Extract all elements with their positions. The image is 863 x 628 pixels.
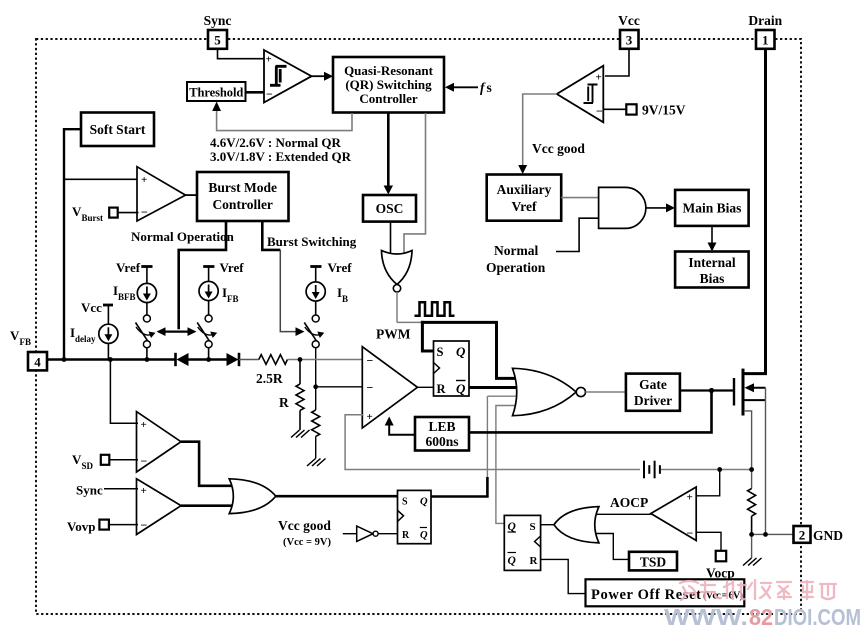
svg-text:R: R	[402, 530, 410, 541]
op-amp U8 AOCP comparator (points left)	[651, 487, 696, 541]
wire: sense node to GND pin (gray)	[752, 533, 794, 535]
current source IFB branch: Vref supply bar	[203, 265, 214, 268]
svg-text:Sync: Sync	[204, 13, 232, 28]
svg-text:Normal: Normal	[494, 243, 538, 258]
flip-flop FF3 (restart latch)	[398, 490, 432, 543]
op-amp U3 burst mode comparator	[137, 167, 186, 221]
svg-text:GND: GND	[813, 528, 843, 543]
svg-text:S: S	[437, 345, 444, 359]
svg-text:Q: Q	[508, 521, 516, 533]
svg-text:Controller: Controller	[359, 91, 417, 106]
Auxiliary Vref block	[487, 175, 562, 221]
Quasi-Resonant (QR) Switching Controller block	[333, 57, 444, 113]
wire: comparator output arrow into QR controller	[312, 75, 328, 77]
svg-text:3: 3	[626, 33, 633, 48]
wire: Sync comparator output to OR3 (thick)	[181, 504, 234, 507]
wire: thick clock rail to NOR2 top input	[421, 322, 515, 378]
svg-text:Vovp: Vovp	[67, 519, 95, 534]
svg-text:+: +	[596, 72, 602, 84]
current source IB	[306, 282, 348, 304]
svg-text:−: −	[141, 454, 148, 468]
svg-text:2.5R: 2.5R	[256, 371, 283, 386]
svg-text:s: s	[487, 80, 492, 95]
resistor 2.5R	[259, 355, 288, 365]
wire: Aux Vref to AND gate (gray)	[561, 197, 600, 199]
switch SW1	[136, 303, 156, 360]
wire: AND to Main Bias (arrow)	[646, 207, 669, 209]
wire: Soft Start to VFB rail (thick vertical)	[64, 129, 81, 359]
svg-text:−: −	[367, 380, 374, 394]
svg-text:+: +	[687, 492, 693, 504]
svg-text:Bias: Bias	[700, 271, 725, 286]
wire: AOCP output to OR4 input	[594, 513, 651, 515]
svg-text:AOCP: AOCP	[610, 495, 648, 510]
svg-text:BFB: BFB	[118, 292, 136, 302]
svg-text:R: R	[437, 382, 447, 396]
svg-text:Normal Operation: Normal Operation	[131, 229, 235, 244]
svg-text:−: −	[141, 518, 148, 532]
OR gate U13 (points left)	[554, 507, 599, 543]
Main Bias block	[675, 190, 749, 226]
svg-text:V: V	[72, 204, 82, 219]
wire 2.5R to PWM comparator - input (gray)	[287, 359, 364, 361]
wire: LEB to PWM comparator bottom (arrow up)	[389, 423, 415, 435]
wire: Threshold box to sync comparator - input	[246, 91, 267, 94]
OR gate U11	[229, 479, 276, 514]
OSC block	[363, 195, 416, 222]
wire: FF2 Q up to NOR2 input 4	[496, 406, 516, 524]
wire: Gate Driver to MOSFET gate (thick)	[680, 389, 733, 391]
svg-text:Sync: Sync	[76, 483, 103, 498]
svg-text:R: R	[279, 395, 289, 410]
wire: QR controller feedback to Threshold (gray)	[217, 108, 352, 131]
svg-text:4: 4	[34, 355, 41, 370]
svg-text:2: 2	[799, 527, 806, 542]
wire: OR3 output to FF3 S (thick)	[276, 495, 398, 498]
wire: PWM comparator output to FF1 R	[418, 386, 434, 388]
wire: fs input arrow into QR controller	[451, 86, 478, 88]
Power Off Reset block	[586, 579, 745, 606]
wire: Vcc good line to Auxiliary Vref (gray, arrow down)	[523, 94, 557, 168]
pin 5 Sync	[208, 30, 227, 49]
svg-text:+: +	[141, 174, 147, 186]
node divider junction to comparator input 2	[316, 386, 364, 388]
svg-text:Quasi-Resonant: Quasi-Resonant	[344, 63, 434, 78]
double-headed arrow switch actuator	[161, 331, 192, 333]
ground (R2)	[307, 459, 326, 467]
svg-text:9V/15V: 9V/15V	[642, 103, 686, 118]
pin 1 Drain	[756, 30, 775, 49]
wire: PWM comparator + feedback (gray, down to CS line)	[345, 415, 640, 470]
wire: Main Bias to Internal Bias (arrow)	[711, 226, 713, 246]
ground (Rsense)	[743, 558, 762, 566]
resistor R2 (vertical)	[312, 387, 320, 459]
svg-text:(QR) Switching: (QR) Switching	[345, 77, 432, 92]
wire: to burst comparator + input	[64, 178, 139, 180]
wire: BMC burst-switching control line	[262, 221, 280, 250]
svg-text:Driver: Driver	[634, 393, 672, 408]
inverter U12	[343, 526, 398, 541]
wire: BMC normal-operation control line (thick) to switch actuator	[179, 221, 226, 329]
wire: Rsense bottom to ground	[751, 534, 753, 558]
svg-text:S: S	[402, 497, 408, 508]
NOR gate U2 (points down)	[382, 251, 413, 292]
svg-text:5: 5	[214, 33, 221, 48]
svg-text:OSC: OSC	[376, 201, 404, 216]
wire: VFB rail down to VSD + input	[110, 360, 138, 424]
svg-text:Vref: Vref	[328, 260, 353, 275]
svg-text:Q: Q	[456, 344, 466, 359]
svg-text:Burst Mode: Burst Mode	[208, 180, 277, 195]
diode D1 (points left)	[174, 353, 177, 366]
Gate Driver block	[626, 374, 680, 411]
svg-text:B: B	[342, 294, 348, 304]
watermark URL	[664, 604, 861, 628]
svg-text:S: S	[530, 521, 536, 533]
wire: CS line from battery to sense node (gray)	[661, 469, 752, 471]
wire: FF2 R input from Power Off Reset	[541, 559, 586, 593]
flip-flop FF2 (protection latch, mirrored)	[504, 515, 540, 570]
svg-text:Threshold: Threshold	[189, 86, 243, 100]
Threshold box	[187, 82, 246, 101]
svg-text:Vref: Vref	[116, 260, 141, 275]
TSD block	[629, 552, 677, 571]
svg-text:+: +	[141, 419, 147, 431]
svg-text:Auxiliary: Auxiliary	[497, 182, 552, 197]
wire: Normal Operation to AND gate	[556, 218, 600, 251]
current source Idelay	[70, 324, 118, 359]
clock pulse waveform	[415, 302, 455, 315]
Burst Mode Controller block	[197, 172, 289, 221]
svg-text:Soft Start: Soft Start	[90, 122, 146, 137]
wire: OR4 output to FF2 S	[541, 524, 554, 526]
wire: NOR1 output down to PWM clock rail (gray)	[396, 292, 398, 322]
svg-text:−: −	[687, 526, 694, 540]
op-amp U4 PWM comparator	[362, 347, 417, 428]
svg-text:Vref: Vref	[220, 260, 245, 275]
svg-text:Q: Q	[420, 530, 428, 541]
watermark Chinese characters	[680, 580, 836, 600]
svg-text:Gate: Gate	[639, 377, 667, 392]
op-amp U10 Sync comparator	[137, 479, 182, 535]
svg-text:Operation: Operation	[486, 260, 546, 275]
diode D2 (points right)	[227, 353, 239, 366]
AND gate U7	[599, 187, 646, 228]
wire: clock rail branch to FF1 S input	[422, 321, 433, 351]
ground (R)	[291, 430, 310, 438]
transistor Q1 SenseFET	[734, 369, 766, 535]
svg-text:600ns: 600ns	[425, 434, 458, 449]
svg-text:R: R	[530, 555, 539, 567]
pin 2 GND	[794, 526, 811, 543]
wire: QR controller down arrow to OSC (thick)	[387, 113, 390, 188]
svg-text:delay: delay	[75, 334, 96, 344]
svg-text:V: V	[10, 328, 20, 343]
svg-text:+: +	[141, 485, 147, 497]
svg-text:Burst Switching: Burst Switching	[267, 234, 357, 249]
svg-text:Main Bias: Main Bias	[683, 201, 742, 216]
battery / offset symbol on CS line	[644, 461, 660, 479]
wire: FF3 Q up to NOR2 input 3	[486, 396, 488, 478]
svg-text:4.6V/2.6V : Normal QR: 4.6V/2.6V : Normal QR	[210, 135, 341, 150]
Soft Start block	[81, 113, 154, 147]
svg-text:V: V	[72, 452, 82, 467]
svg-text:82: 82	[749, 604, 773, 628]
svg-text:LEB: LEB	[428, 419, 455, 434]
svg-text:1: 1	[762, 33, 769, 48]
resistor Rsense (vertical)	[748, 489, 756, 535]
LEB 600ns block	[415, 417, 469, 451]
svg-text:Controller: Controller	[212, 197, 273, 212]
VFB rail wire (thick)	[47, 358, 175, 360]
wire: QR controller to NOR1 right input (gray)	[404, 113, 426, 256]
wire: AOCP + input to CS node	[696, 470, 720, 496]
switch SW2	[197, 301, 217, 360]
wire: OSC to NOR1 left input	[390, 222, 392, 256]
op-amp U1 sync threshold comparator with hysteresis	[264, 50, 312, 103]
svg-text:WWW.: WWW.	[664, 604, 748, 628]
svg-text:−: −	[367, 354, 374, 368]
svg-text:TSD: TSD	[640, 555, 667, 570]
current source IB branch: Vref supply bar	[310, 265, 321, 268]
resistor R (vertical)	[279, 360, 304, 431]
svg-text:(Vcc = 9V): (Vcc = 9V)	[283, 537, 331, 548]
wire: FF1 Qbar to NOR2 input (thick)	[469, 386, 516, 389]
wire: TSD to OR4 input	[592, 534, 629, 560]
flip-flop FF1 (PWM latch)	[434, 341, 470, 396]
op-amp U6 Vcc UVLO comparator (points left)	[557, 66, 604, 123]
wire: Drain pin down to MOSFET (thick)	[744, 49, 766, 374]
svg-text:+: +	[367, 411, 373, 423]
svg-text:Vcc: Vcc	[618, 13, 640, 28]
wire: AOCP - input to Vocp	[696, 532, 721, 551]
node 9V/15V	[603, 108, 626, 110]
pin 3 Vcc	[620, 30, 639, 49]
svg-text:Drain: Drain	[748, 13, 782, 28]
svg-text:FB: FB	[20, 337, 32, 347]
junction dots	[62, 357, 768, 537]
svg-text:Vcc good: Vcc good	[278, 518, 331, 533]
svg-text:Q: Q	[456, 381, 466, 396]
svg-text:Q: Q	[508, 555, 516, 567]
wire: NOR2 to Gate Driver (gray)	[586, 391, 627, 393]
current source IFB	[199, 281, 239, 304]
current source IBFB	[113, 283, 156, 303]
op-amp U9 VSD comparator	[137, 412, 182, 472]
svg-text:Vref: Vref	[512, 199, 537, 214]
svg-text:−: −	[266, 87, 273, 101]
svg-text:Q: Q	[420, 497, 428, 508]
wire between diodes (thick)	[189, 358, 228, 360]
svg-text:3.0V/1.8V : Extended QR: 3.0V/1.8V : Extended QR	[210, 149, 352, 164]
wire: VSD comparator output to OR3 (thick)	[181, 442, 234, 486]
node Vocp	[716, 551, 727, 562]
wire to 2.5R	[239, 359, 259, 361]
svg-text:Internal: Internal	[688, 255, 735, 270]
Internal Bias block	[675, 252, 749, 288]
wire: Vcc pin down to Vcc comparator +	[605, 49, 629, 76]
svg-text:−: −	[596, 104, 603, 118]
svg-text:−: −	[141, 205, 148, 219]
svg-text:Burst: Burst	[82, 213, 104, 223]
wire: gate node down and left to LEB (thick)	[469, 391, 712, 433]
svg-text:DIOI.COM: DIOI.COM	[774, 604, 861, 628]
svg-text:Vcc good: Vcc good	[532, 141, 585, 156]
NOR gate U5 (4-input, before gate driver)	[513, 368, 586, 415]
svg-text:Vcc: Vcc	[81, 300, 102, 315]
wire: Sync pin5 to comparator + input	[218, 48, 267, 59]
switch SW3	[304, 301, 324, 387]
svg-text:SD: SD	[82, 461, 94, 471]
svg-text:+: +	[266, 54, 272, 66]
svg-text:FB: FB	[227, 294, 239, 304]
wire: VBurst to - input	[118, 212, 139, 214]
svg-text:PWM: PWM	[376, 327, 411, 342]
wire: burst comparator output to BMC	[186, 194, 198, 196]
